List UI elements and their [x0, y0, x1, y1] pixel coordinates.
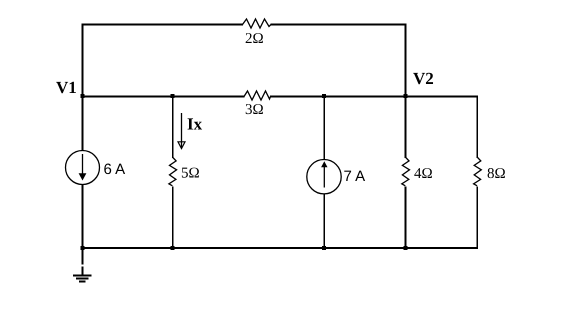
wire middle segment V1 to 5ohm branch node [83, 96, 173, 98]
resistor R 4ohm zigzag [402, 157, 410, 186]
wire V2 branch vertical from top wire to middle wire [405, 24, 407, 97]
node junction dot bottom at 4ohm branch [403, 246, 407, 250]
wire left vertical lower (6A source to bottom wire) [82, 185, 84, 250]
wire middle segment 5ohm node to 3ohm resistor [172, 96, 245, 98]
node junction dot at 7A branch top [322, 94, 326, 98]
svg-text:Ix: Ix [187, 115, 203, 134]
wire 7A branch upper segment [323, 97, 325, 161]
resistor R 2ohm zigzag [243, 19, 272, 28]
ground symbol bar 1 [73, 275, 92, 277]
wire 8ohm branch lower segment [476, 187, 478, 250]
resistor R 8ohm zigzag [474, 157, 482, 186]
current source I2 7A circle [307, 160, 341, 194]
svg-text:V2: V2 [413, 69, 434, 88]
wire 4ohm to bottom wire [405, 187, 407, 250]
node junction dot at 5ohm branch top [171, 94, 175, 98]
wire V2 branch from middle wire to 4ohm resistor [405, 97, 407, 159]
current source I1 6A circle [66, 151, 100, 185]
node junction dot bottom at 7A branch [322, 246, 326, 250]
current source I1 6A arrow (pointing down) [79, 154, 87, 181]
ground stem lower [82, 267, 84, 276]
resistor R 5ohm zigzag [169, 157, 177, 186]
wire middle segment V2 to 8ohm corner [405, 96, 478, 98]
node junction dot bottom at 5ohm branch [171, 246, 175, 250]
ground stem upper [82, 249, 84, 265]
resistor R 3ohm zigzag [244, 91, 271, 100]
wire 5ohm branch upper segment [172, 97, 174, 159]
wire middle segment 7A node to V2 [324, 96, 405, 98]
wire 5ohm branch lower segment [172, 187, 174, 250]
wire bottom from ground node to 8ohm branch [83, 247, 479, 249]
svg-text:V1: V1 [56, 78, 77, 97]
svg-text:5Ω: 5Ω [181, 166, 200, 182]
current source I2 7A arrow (pointing up) [321, 161, 327, 187]
ground symbol bar 2 [76, 278, 89, 280]
node V1 junction dot [81, 94, 85, 98]
svg-text:4Ω: 4Ω [414, 166, 433, 182]
wire 7A branch lower segment [323, 194, 325, 250]
wire top right segment from 2ohm to V2 corner [271, 24, 407, 26]
svg-text:7 A: 7 A [344, 168, 366, 185]
svg-text:8Ω: 8Ω [487, 166, 506, 182]
wire left vertical upper (V1 branch from top wire to 6A source) [82, 24, 84, 152]
ground symbol bar 3 [79, 281, 86, 283]
node V2 junction dot [403, 94, 407, 98]
svg-text:6 A: 6 A [104, 161, 126, 178]
node junction dot bottom at ground/V1 branch [81, 246, 85, 250]
svg-text:2Ω: 2Ω [245, 31, 264, 47]
svg-text:3Ω: 3Ω [245, 102, 264, 118]
wire middle segment 3ohm to 7A branch node [270, 96, 324, 98]
wire 8ohm branch upper segment [476, 96, 478, 159]
Ix annotation arrow (pointing down, open head) [178, 113, 185, 149]
wire top left segment from V1 branch to 2ohm resistor [83, 24, 244, 26]
